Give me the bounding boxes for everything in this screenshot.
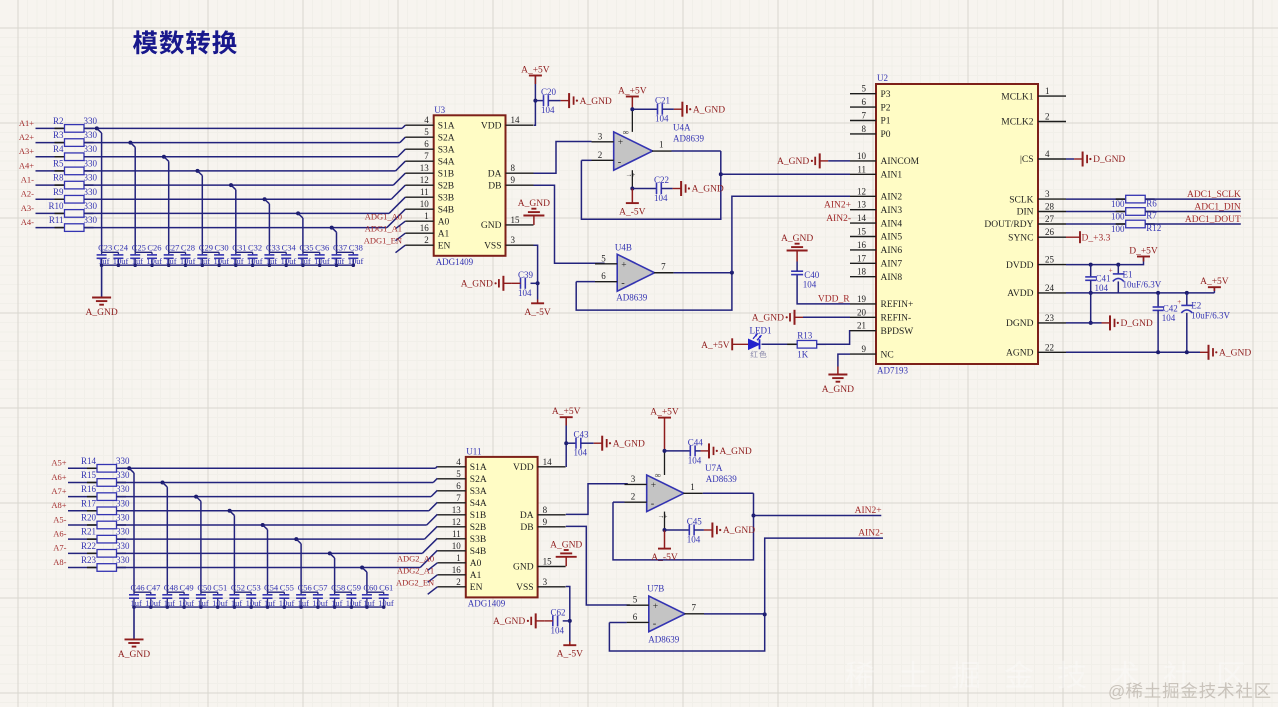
svg-text:A5-: A5- xyxy=(53,514,66,524)
svg-text:8: 8 xyxy=(511,163,516,173)
svg-text:5: 5 xyxy=(456,469,461,479)
svg-text:1: 1 xyxy=(659,140,664,150)
svg-text:3: 3 xyxy=(1045,189,1050,199)
svg-text:16: 16 xyxy=(420,223,430,233)
svg-text:A_+5V: A_+5V xyxy=(618,87,647,97)
svg-text:DB: DB xyxy=(520,523,533,533)
svg-text:A_GND: A_GND xyxy=(550,540,582,550)
svg-text:A_GND: A_GND xyxy=(1219,349,1251,359)
svg-text:C30: C30 xyxy=(215,243,229,253)
svg-text:11: 11 xyxy=(452,529,461,539)
svg-text:20: 20 xyxy=(857,307,867,317)
svg-text:S2B: S2B xyxy=(470,523,486,533)
svg-text:A3+: A3+ xyxy=(19,146,34,156)
svg-text:+: + xyxy=(631,171,635,179)
svg-text:DA: DA xyxy=(488,169,502,179)
svg-text:16: 16 xyxy=(452,565,462,575)
svg-text:11: 11 xyxy=(857,164,866,174)
svg-text:R22: R22 xyxy=(81,541,96,551)
svg-text:14: 14 xyxy=(857,213,867,223)
svg-text:P0: P0 xyxy=(881,130,891,140)
svg-text:13: 13 xyxy=(452,505,462,515)
svg-text:AIN2+: AIN2+ xyxy=(824,201,851,211)
svg-text:D_GND: D_GND xyxy=(1121,319,1153,329)
svg-text:C56: C56 xyxy=(298,583,312,593)
svg-text:+: + xyxy=(621,260,626,270)
svg-text:C55: C55 xyxy=(280,583,294,593)
svg-text:28: 28 xyxy=(1045,202,1055,212)
svg-text:DIN: DIN xyxy=(1017,208,1034,218)
svg-text:C58: C58 xyxy=(331,583,345,593)
svg-text:1: 1 xyxy=(690,482,695,492)
svg-text:AIN2-: AIN2- xyxy=(826,214,851,224)
svg-text:C54: C54 xyxy=(264,583,279,593)
svg-text:A_GND: A_GND xyxy=(822,385,854,395)
svg-text:5: 5 xyxy=(633,595,638,605)
svg-text:330: 330 xyxy=(116,456,130,466)
svg-text:25: 25 xyxy=(1045,255,1055,265)
svg-text:2: 2 xyxy=(456,577,461,587)
svg-text:7: 7 xyxy=(661,261,666,271)
svg-text:AIN8: AIN8 xyxy=(881,273,903,283)
svg-text:R23: R23 xyxy=(81,555,97,565)
svg-text:A_GND: A_GND xyxy=(692,185,724,195)
svg-text:15: 15 xyxy=(511,215,521,225)
svg-text:5: 5 xyxy=(862,84,867,94)
svg-text:U7B: U7B xyxy=(647,583,664,593)
svg-text:A_-5V: A_-5V xyxy=(524,308,551,318)
svg-text:A5+: A5+ xyxy=(51,458,66,468)
svg-text:6: 6 xyxy=(456,481,461,491)
svg-text:BPDSW: BPDSW xyxy=(881,327,914,337)
svg-text:AIN7: AIN7 xyxy=(881,260,903,270)
svg-text:10: 10 xyxy=(452,541,462,551)
svg-text:REFIN+: REFIN+ xyxy=(881,300,914,310)
svg-text:C28: C28 xyxy=(181,243,195,253)
svg-text:R8: R8 xyxy=(53,173,64,183)
svg-text:A4+: A4+ xyxy=(19,160,34,170)
svg-text:5: 5 xyxy=(601,253,606,263)
svg-text:AGND: AGND xyxy=(1006,349,1034,359)
svg-text:A_+5V: A_+5V xyxy=(521,66,550,76)
svg-text:ADG1409: ADG1409 xyxy=(468,598,506,608)
svg-text:A_GND: A_GND xyxy=(613,439,645,449)
svg-text:VDD: VDD xyxy=(513,463,534,473)
svg-text:12: 12 xyxy=(420,175,429,185)
svg-text:C22: C22 xyxy=(654,175,669,185)
svg-text:A1: A1 xyxy=(438,229,450,239)
svg-text:C27: C27 xyxy=(165,243,179,253)
svg-text:C21: C21 xyxy=(655,96,670,106)
svg-text:LED1: LED1 xyxy=(750,325,772,335)
svg-text:R16: R16 xyxy=(81,484,97,494)
svg-text:R14: R14 xyxy=(81,456,97,466)
svg-text:R2: R2 xyxy=(53,116,64,126)
svg-text:330: 330 xyxy=(84,173,98,183)
svg-text:104: 104 xyxy=(1095,283,1109,293)
svg-text:7: 7 xyxy=(692,602,697,612)
svg-text:SYNC: SYNC xyxy=(1008,233,1033,243)
svg-text:C35: C35 xyxy=(299,243,313,253)
svg-text:C24: C24 xyxy=(114,243,129,253)
svg-text:104: 104 xyxy=(518,288,532,298)
svg-text:104: 104 xyxy=(1162,313,1176,323)
svg-text:1K: 1K xyxy=(797,350,809,360)
svg-text:4: 4 xyxy=(424,115,429,125)
svg-text:4: 4 xyxy=(1045,149,1050,159)
svg-text:330: 330 xyxy=(84,215,98,225)
svg-text:+: + xyxy=(1109,266,1113,274)
svg-text:17: 17 xyxy=(857,253,867,263)
svg-text:104: 104 xyxy=(655,114,669,124)
svg-text:C34: C34 xyxy=(282,243,297,253)
svg-text:10: 10 xyxy=(857,151,867,161)
svg-text:C47: C47 xyxy=(146,583,160,593)
svg-text:S3B: S3B xyxy=(438,193,454,203)
svg-text:2: 2 xyxy=(1045,112,1050,122)
svg-text:S2A: S2A xyxy=(438,133,455,143)
svg-text:C36: C36 xyxy=(315,243,329,253)
svg-text:AIN6: AIN6 xyxy=(881,246,903,256)
svg-text:C26: C26 xyxy=(147,243,161,253)
svg-text:S1B: S1B xyxy=(470,511,486,521)
svg-text:EN: EN xyxy=(438,241,451,251)
svg-text:100: 100 xyxy=(1111,199,1125,209)
svg-text:U11: U11 xyxy=(466,446,481,456)
svg-text:22: 22 xyxy=(1045,342,1054,352)
svg-text:104: 104 xyxy=(574,448,588,458)
svg-text:AVDD: AVDD xyxy=(1007,289,1033,299)
svg-text:@: @ xyxy=(1108,682,1125,701)
svg-text:ADG2_A1: ADG2_A1 xyxy=(397,565,434,575)
svg-text:U4B: U4B xyxy=(615,243,632,253)
svg-text:A2+: A2+ xyxy=(19,132,34,142)
svg-text:C20: C20 xyxy=(541,87,557,97)
svg-text:ADG1_A0: ADG1_A0 xyxy=(365,212,402,222)
svg-text:R11: R11 xyxy=(49,215,64,225)
svg-text:A_GND: A_GND xyxy=(781,234,813,244)
svg-text:ADG2_EN: ADG2_EN xyxy=(396,577,434,587)
svg-text:A_+5V: A_+5V xyxy=(701,341,730,351)
svg-text:AIN1: AIN1 xyxy=(881,171,903,181)
svg-text:R21: R21 xyxy=(81,527,96,537)
svg-text:C62: C62 xyxy=(551,607,566,617)
svg-text:1: 1 xyxy=(1045,86,1050,96)
svg-text:AIN3: AIN3 xyxy=(881,206,903,216)
svg-text:2: 2 xyxy=(598,150,603,160)
svg-text:7: 7 xyxy=(456,493,461,503)
svg-text:A1+: A1+ xyxy=(19,118,34,128)
svg-text:A_GND: A_GND xyxy=(720,447,752,457)
svg-text:8: 8 xyxy=(862,124,867,134)
svg-text:A_GND: A_GND xyxy=(461,280,493,290)
svg-text:A_GND: A_GND xyxy=(493,617,525,627)
svg-text:26: 26 xyxy=(1045,227,1055,237)
svg-text:330: 330 xyxy=(116,498,130,508)
svg-text:C33: C33 xyxy=(266,243,280,253)
svg-text:10: 10 xyxy=(420,199,430,209)
svg-text:ADC1_DIN: ADC1_DIN xyxy=(1194,203,1241,213)
svg-text:R10: R10 xyxy=(48,201,64,211)
svg-text:AIN2: AIN2 xyxy=(881,193,903,203)
svg-text:A6-: A6- xyxy=(53,529,66,539)
svg-text:15: 15 xyxy=(543,557,553,567)
svg-text:6: 6 xyxy=(424,139,429,149)
svg-text:13: 13 xyxy=(420,163,430,173)
svg-text:C51: C51 xyxy=(213,583,227,593)
svg-text:DA: DA xyxy=(520,511,534,521)
svg-text:A7+: A7+ xyxy=(51,486,66,496)
svg-text:10uF/6.3V: 10uF/6.3V xyxy=(1123,280,1162,290)
svg-text:C61: C61 xyxy=(379,583,393,593)
svg-text:GND: GND xyxy=(513,563,534,573)
svg-text:S2B: S2B xyxy=(438,181,454,191)
svg-text:-: - xyxy=(618,157,622,168)
svg-text:C23: C23 xyxy=(98,243,112,253)
svg-text:A1-: A1- xyxy=(21,174,34,184)
svg-text:C29: C29 xyxy=(199,243,213,253)
svg-text:ADC1_DOUT: ADC1_DOUT xyxy=(1185,215,1241,225)
svg-text:AD8639: AD8639 xyxy=(673,133,704,143)
svg-text:A4-: A4- xyxy=(21,217,34,227)
svg-text:330: 330 xyxy=(116,555,130,565)
svg-text:AD8639: AD8639 xyxy=(616,292,647,302)
svg-text:23: 23 xyxy=(1045,313,1055,323)
svg-text:3: 3 xyxy=(631,474,636,484)
svg-text:DOUT/RDY: DOUT/RDY xyxy=(984,220,1033,230)
svg-text:C53: C53 xyxy=(247,583,261,593)
svg-text:330: 330 xyxy=(84,130,98,140)
svg-text:19: 19 xyxy=(857,294,867,304)
svg-text:ADG1_A1: ADG1_A1 xyxy=(365,224,402,234)
svg-text:100: 100 xyxy=(1111,224,1125,234)
svg-text:ADG1_EN: ADG1_EN xyxy=(364,236,402,246)
svg-text:AIN5: AIN5 xyxy=(881,233,903,243)
svg-text:C46: C46 xyxy=(131,583,145,593)
svg-text:SCLK: SCLK xyxy=(1009,195,1033,205)
svg-text:AINCOM: AINCOM xyxy=(881,157,920,167)
svg-text:NC: NC xyxy=(881,350,894,360)
svg-text:6: 6 xyxy=(601,271,606,281)
svg-text:DGND: DGND xyxy=(1006,319,1034,329)
svg-text:S1B: S1B xyxy=(438,169,454,179)
svg-text:330: 330 xyxy=(116,512,130,522)
svg-text:1: 1 xyxy=(424,211,429,221)
svg-text:VSS: VSS xyxy=(484,241,501,251)
svg-text:U3: U3 xyxy=(434,105,445,115)
svg-text:C37: C37 xyxy=(333,243,347,253)
svg-text:A_GND: A_GND xyxy=(693,105,725,115)
svg-text:A_-5V: A_-5V xyxy=(557,650,584,660)
svg-text:MCLK1: MCLK1 xyxy=(1001,92,1033,102)
svg-text:104: 104 xyxy=(688,455,702,465)
svg-text:A_-5V: A_-5V xyxy=(651,553,678,563)
svg-text:+: + xyxy=(1177,298,1181,306)
svg-text:S1A: S1A xyxy=(438,121,455,131)
svg-text:GND: GND xyxy=(481,221,502,231)
svg-text:-: - xyxy=(651,499,655,510)
svg-text:5: 5 xyxy=(424,127,429,137)
svg-text:S4B: S4B xyxy=(438,205,454,215)
svg-text:E1: E1 xyxy=(1123,269,1133,279)
svg-text:A6+: A6+ xyxy=(51,472,66,482)
svg-text:104: 104 xyxy=(654,193,668,203)
svg-text:C25: C25 xyxy=(132,243,146,253)
svg-text:24: 24 xyxy=(1045,283,1055,293)
svg-text:+: + xyxy=(664,513,668,521)
svg-text:4: 4 xyxy=(456,457,461,467)
svg-text:1: 1 xyxy=(456,553,461,563)
svg-text:C50: C50 xyxy=(197,583,211,593)
svg-text:U2: U2 xyxy=(877,73,888,83)
svg-text:9: 9 xyxy=(511,175,516,185)
svg-text:MCLK2: MCLK2 xyxy=(1001,118,1033,128)
svg-text:P3: P3 xyxy=(881,90,891,100)
svg-text:330: 330 xyxy=(84,187,98,197)
svg-text:10uF/6.3V: 10uF/6.3V xyxy=(1191,310,1230,320)
svg-text:AD7193: AD7193 xyxy=(877,366,908,376)
svg-text:R15: R15 xyxy=(81,470,97,480)
svg-text:C43: C43 xyxy=(574,430,590,440)
svg-text:21: 21 xyxy=(857,321,866,331)
svg-text:3: 3 xyxy=(543,577,548,587)
svg-text:A1: A1 xyxy=(470,571,482,581)
svg-text:R13: R13 xyxy=(797,330,813,340)
svg-text:R20: R20 xyxy=(81,512,97,522)
svg-text:AIN2-: AIN2- xyxy=(858,529,883,539)
svg-text:12: 12 xyxy=(452,517,461,527)
svg-text:13: 13 xyxy=(857,200,867,210)
svg-text:C48: C48 xyxy=(164,583,178,593)
svg-text:DVDD: DVDD xyxy=(1006,261,1034,271)
svg-text:A_GND: A_GND xyxy=(580,97,612,107)
svg-text:C57: C57 xyxy=(313,583,327,593)
svg-text:3: 3 xyxy=(511,235,516,245)
svg-text:A_-5V: A_-5V xyxy=(619,208,646,218)
svg-text:DB: DB xyxy=(488,181,501,191)
svg-text:14: 14 xyxy=(543,457,553,467)
svg-text:A0: A0 xyxy=(470,559,482,569)
svg-text:C59: C59 xyxy=(347,583,361,593)
svg-text:11: 11 xyxy=(420,187,429,197)
svg-text:2: 2 xyxy=(631,492,636,502)
svg-text:C32: C32 xyxy=(248,243,262,253)
svg-text:330: 330 xyxy=(84,201,98,211)
svg-text:C60: C60 xyxy=(363,583,377,593)
svg-text:15: 15 xyxy=(857,227,867,237)
svg-text:C49: C49 xyxy=(180,583,194,593)
svg-text:AIN2+: AIN2+ xyxy=(855,506,882,516)
svg-text:104: 104 xyxy=(803,279,817,289)
svg-text:E2: E2 xyxy=(1191,301,1201,311)
svg-text:VDD: VDD xyxy=(481,121,502,131)
svg-text:8: 8 xyxy=(543,505,548,515)
svg-text:A0: A0 xyxy=(438,217,450,227)
svg-text:REFIN-: REFIN- xyxy=(881,314,912,324)
svg-text:A7-: A7- xyxy=(53,543,66,553)
svg-text:AD8639: AD8639 xyxy=(648,635,679,645)
svg-text:C45: C45 xyxy=(687,517,703,527)
svg-text:VDD_R: VDD_R xyxy=(818,295,850,305)
svg-text:330: 330 xyxy=(116,470,130,480)
svg-text:A2-: A2- xyxy=(21,189,34,199)
svg-text:104: 104 xyxy=(551,625,565,635)
svg-text:A8+: A8+ xyxy=(51,500,66,510)
svg-text:D_+3.3: D_+3.3 xyxy=(1082,234,1111,244)
svg-text:S3A: S3A xyxy=(438,145,455,155)
svg-text:330: 330 xyxy=(84,144,98,154)
svg-text:9: 9 xyxy=(543,517,548,527)
svg-text:S4A: S4A xyxy=(438,157,455,167)
svg-text:A_GND: A_GND xyxy=(723,526,755,536)
svg-text:U4A: U4A xyxy=(673,122,691,132)
svg-text:A_+5V: A_+5V xyxy=(552,407,581,417)
svg-text:R4: R4 xyxy=(53,144,64,154)
svg-text:+: + xyxy=(653,602,658,612)
svg-text:S4A: S4A xyxy=(470,499,487,509)
svg-text:P1: P1 xyxy=(881,117,891,127)
svg-text:ADC1_SCLK: ADC1_SCLK xyxy=(1187,190,1241,200)
svg-text:S1A: S1A xyxy=(470,463,487,473)
svg-text:∞: ∞ xyxy=(655,470,661,480)
svg-text:6: 6 xyxy=(633,612,638,622)
svg-text:18: 18 xyxy=(857,267,867,277)
svg-text:C39: C39 xyxy=(518,270,534,280)
svg-text:P2: P2 xyxy=(881,103,891,113)
svg-text:330: 330 xyxy=(116,484,130,494)
svg-text:R3: R3 xyxy=(53,130,64,140)
svg-text:ADG2_A0: ADG2_A0 xyxy=(397,553,434,563)
svg-text:330: 330 xyxy=(84,116,98,126)
svg-text:A_+5V: A_+5V xyxy=(1200,277,1229,287)
svg-text:+: + xyxy=(651,481,656,491)
svg-text:7: 7 xyxy=(424,151,429,161)
svg-text:A_GND: A_GND xyxy=(85,308,117,318)
svg-text:7: 7 xyxy=(862,111,867,121)
svg-text:27: 27 xyxy=(1045,214,1055,224)
svg-text:104: 104 xyxy=(687,535,701,545)
svg-text:VSS: VSS xyxy=(516,583,533,593)
svg-text:ADG1409: ADG1409 xyxy=(436,257,474,267)
svg-text:AD8639: AD8639 xyxy=(706,474,737,484)
svg-text:R17: R17 xyxy=(81,498,97,508)
svg-text:6: 6 xyxy=(862,97,867,107)
svg-text:U7A: U7A xyxy=(705,463,723,473)
svg-text:A_GND: A_GND xyxy=(118,650,150,660)
svg-text:330: 330 xyxy=(116,541,130,551)
svg-text:A_+5V: A_+5V xyxy=(650,408,679,418)
svg-text:330: 330 xyxy=(84,158,98,168)
svg-text:A_GND: A_GND xyxy=(752,314,784,324)
svg-text:S3A: S3A xyxy=(470,487,487,497)
svg-text:AIN4: AIN4 xyxy=(881,219,903,229)
svg-text:C31: C31 xyxy=(232,243,246,253)
svg-text:A_GND: A_GND xyxy=(518,199,550,209)
svg-text:D_+5V: D_+5V xyxy=(1129,247,1158,257)
svg-text:S2A: S2A xyxy=(470,475,487,485)
svg-text:14: 14 xyxy=(511,115,521,125)
svg-text:12: 12 xyxy=(857,186,866,196)
svg-text:∞: ∞ xyxy=(623,127,629,137)
svg-text:9: 9 xyxy=(862,344,867,354)
svg-text:D_GND: D_GND xyxy=(1093,155,1125,165)
svg-text:C44: C44 xyxy=(688,437,704,447)
svg-text:R5: R5 xyxy=(53,158,64,168)
svg-text:-: - xyxy=(621,278,625,289)
svg-text:C52: C52 xyxy=(231,583,245,593)
svg-text:R9: R9 xyxy=(53,187,64,197)
svg-text:S4B: S4B xyxy=(470,547,486,557)
